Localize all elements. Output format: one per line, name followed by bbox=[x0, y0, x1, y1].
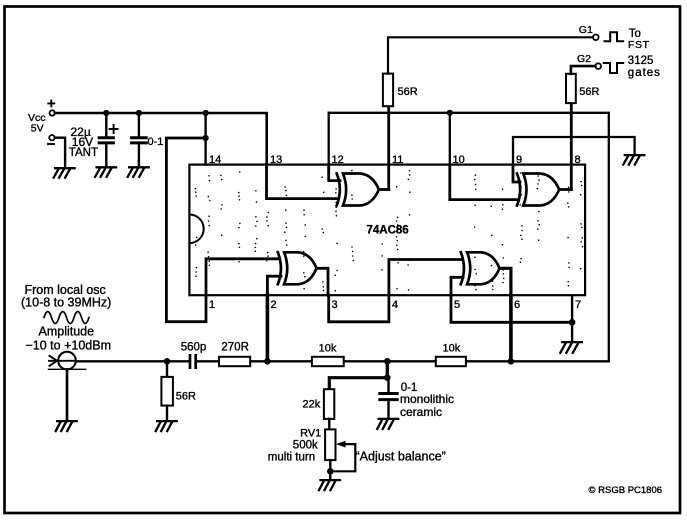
svg-text:12: 12 bbox=[332, 154, 344, 166]
node G1 terminal bbox=[593, 35, 599, 41]
junction dot (pin 6 on signal line) bbox=[508, 358, 515, 365]
junction dot (pin14 to rail) bbox=[203, 110, 209, 116]
XOR gate U1b internal input wire pin 4 bbox=[389, 260, 462, 296]
node Vcc + terminal bbox=[48, 100, 55, 115]
svg-text:ceramic: ceramic bbox=[400, 405, 442, 419]
ground (oscillator) bbox=[56, 421, 77, 431]
svg-text:3: 3 bbox=[332, 299, 338, 311]
wire feedback line (pin6 to pins 12,10) bbox=[329, 113, 609, 361]
wire pin 11 to resistor bbox=[387, 106, 390, 189]
svg-text:14: 14 bbox=[209, 154, 221, 166]
wire pin 1 loop around IC left bbox=[166, 138, 206, 322]
svg-text:22k: 22k bbox=[303, 399, 321, 411]
svg-text:13: 13 bbox=[270, 154, 282, 166]
junction dot (22u to rail) bbox=[103, 110, 109, 116]
capacitor C1 22u tantalum bbox=[99, 113, 117, 167]
junction dot (56R branch) bbox=[164, 358, 171, 365]
IC U1 74AC86 body bbox=[189, 165, 585, 296]
ground (RV1) bbox=[319, 480, 340, 490]
resistor R3 56R (input termination) bbox=[161, 377, 173, 406]
svg-text:56R: 56R bbox=[398, 86, 418, 98]
capacitor C4 0.1 monolithic bbox=[380, 378, 397, 419]
svg-text:−10 to +10dBm: −10 to +10dBm bbox=[26, 339, 111, 353]
XOR gate U1a (pins 1,2 out 3) bbox=[278, 252, 317, 284]
svg-text:7: 7 bbox=[575, 299, 581, 311]
svg-text:10k: 10k bbox=[443, 343, 461, 355]
svg-text:270R: 270R bbox=[221, 342, 249, 354]
svg-text:0-1: 0-1 bbox=[148, 136, 164, 148]
node minus terminal bbox=[48, 135, 55, 144]
resistor R4 270R bbox=[219, 357, 250, 366]
svg-text:4: 4 bbox=[392, 299, 398, 311]
XOR gate U1d internal input wire pin 9 bbox=[513, 165, 520, 182]
oscillator source bbox=[48, 352, 85, 370]
ground (C2) bbox=[128, 167, 149, 177]
wire R3 to ground bbox=[166, 406, 168, 421]
op XOR gate U1c internal input wire pin 13 bbox=[267, 165, 339, 199]
IC stipple texture bbox=[195, 170, 584, 292]
svg-text:8: 8 bbox=[575, 154, 581, 166]
resistor R1 56R (pin 11) bbox=[383, 74, 393, 107]
XOR gate U1d internal input wire pin 10 bbox=[450, 165, 519, 200]
wire pin 10 bbox=[449, 113, 451, 165]
svg-text:6: 6 bbox=[514, 299, 520, 311]
svg-text:10k: 10k bbox=[319, 343, 337, 355]
XOR U1c output wire to pin 11 bbox=[379, 188, 389, 191]
XOR gate U1d (pins 9,10 out 8) bbox=[517, 174, 559, 206]
junction dot (bias node lower) bbox=[384, 374, 391, 381]
ground (pin 9) bbox=[623, 155, 644, 165]
svg-text:G1: G1 bbox=[579, 24, 593, 36]
svg-text:multi turn: multi turn bbox=[268, 451, 315, 463]
junction dot (pin1 loop on pin14 wire) bbox=[203, 135, 209, 141]
potentiometer RV1 500k bbox=[325, 429, 335, 460]
junction dot (pin 2 on signal line) bbox=[264, 358, 271, 365]
wire oscillator to ground bbox=[66, 369, 69, 420]
wire R2 to G2 bbox=[571, 66, 596, 74]
svg-text:56R: 56R bbox=[176, 391, 196, 403]
junction dot (pin5/pin7) bbox=[569, 319, 576, 326]
svg-text:monolithic: monolithic bbox=[400, 392, 454, 406]
ground (C1) bbox=[95, 167, 116, 177]
svg-text:TANT: TANT bbox=[69, 147, 98, 159]
svg-text:10: 10 bbox=[453, 154, 465, 166]
wire pin 8 to resistor bbox=[570, 103, 573, 189]
wire pin 9 to ground bbox=[513, 137, 635, 165]
wire RV1 to ground bbox=[329, 460, 331, 480]
XOR U1d output wire to pin 8 bbox=[559, 188, 571, 191]
svg-text:(10-8 to 39MHz): (10-8 to 39MHz) bbox=[21, 296, 111, 310]
wire 22k to RV1 bbox=[328, 419, 330, 430]
wire bias node down bbox=[386, 361, 389, 377]
XOR gate U1a internal input wire pin 1 bbox=[206, 259, 280, 295]
svg-text:74AC86: 74AC86 bbox=[367, 225, 409, 237]
svg-text:11: 11 bbox=[392, 154, 403, 166]
svg-text:56R: 56R bbox=[579, 86, 599, 98]
ground (C4) bbox=[377, 419, 398, 429]
XOR U1a output wire to pin 3 bbox=[317, 268, 329, 295]
svg-text:5V: 5V bbox=[31, 122, 44, 134]
XOR gate U1b internal input wire pin 5 bbox=[451, 277, 463, 295]
ground (R3) bbox=[156, 421, 177, 431]
wire bias node to 22k bbox=[329, 378, 387, 390]
svg-text:G2: G2 bbox=[577, 53, 591, 65]
svg-text:2: 2 bbox=[271, 299, 277, 311]
XOR gate U1b (pins 4,5 out 6) bbox=[461, 252, 500, 284]
XOR gate U1a internal input wire pin 2 bbox=[267, 276, 281, 295]
resistor R7 22k bbox=[324, 389, 334, 419]
wire pin 5 to pin 7 ground bbox=[451, 295, 572, 322]
wire pin 14 to Vcc rail bbox=[204, 113, 206, 165]
svg-text:gates: gates bbox=[628, 67, 661, 79]
junction dot (pin 10 on feedback line) bbox=[447, 110, 453, 116]
resistor R2 56R (pin 8) bbox=[566, 74, 576, 103]
XOR gate U1c (pins 12,13 out 11) bbox=[337, 174, 379, 206]
svg-text:560p: 560p bbox=[181, 342, 207, 354]
resistor R5 10k bbox=[312, 357, 344, 366]
capacitor C2 0.1 bbox=[132, 113, 147, 167]
svg-text:3125: 3125 bbox=[628, 55, 654, 67]
wire Vcc rail bbox=[55, 113, 267, 165]
wire pin 6 to signal line bbox=[509, 295, 513, 361]
svg-text:“Adjust balance”: “Adjust balance” bbox=[356, 450, 446, 464]
junction dot (RV1 wiper to bottom) bbox=[327, 468, 334, 475]
svg-text:5: 5 bbox=[454, 299, 460, 311]
wire minus terminal to ground bbox=[55, 138, 65, 169]
waveform negative pulse bbox=[604, 63, 623, 73]
wire R1 to G1 bbox=[388, 37, 593, 73]
resistor R6 10k bbox=[436, 357, 466, 366]
RV1 wiper arrow bbox=[333, 444, 355, 471]
wire pin 3 to pin 4 loop bbox=[329, 295, 389, 322]
XOR U1b output wire to pin 6 bbox=[500, 268, 511, 295]
XOR gate U1c internal input wire pin 12 bbox=[329, 165, 340, 181]
svg-text:To: To bbox=[629, 28, 641, 40]
waveform sine symbol bbox=[44, 312, 89, 324]
svg-text:RV1: RV1 bbox=[300, 428, 321, 440]
junction dot (bias node on signal line) bbox=[384, 358, 391, 365]
node G2 terminal bbox=[595, 63, 601, 69]
svg-text:© RSGB PC1806: © RSGB PC1806 bbox=[589, 485, 663, 496]
wire 56R branch bbox=[166, 361, 168, 377]
junction dot (0.1 to rail) bbox=[136, 110, 142, 116]
waveform positive pulse bbox=[605, 32, 624, 41]
wire pin 12 to feedback line bbox=[328, 113, 330, 165]
svg-text:1: 1 bbox=[209, 299, 215, 311]
svg-text:Amplitude: Amplitude bbox=[39, 325, 95, 339]
wire signal line bbox=[76, 360, 609, 362]
wire pin 7 to ground bbox=[571, 295, 573, 342]
IC notch bbox=[189, 215, 203, 244]
svg-text:9: 9 bbox=[516, 154, 522, 166]
ground (minus terminal) bbox=[54, 168, 75, 178]
svg-text:FST: FST bbox=[628, 39, 650, 51]
svg-text:500k: 500k bbox=[293, 439, 318, 451]
wire pin 2 to signal line bbox=[266, 295, 270, 361]
capacitor C3 560p bbox=[190, 355, 196, 367]
ground (pin 7) bbox=[560, 342, 582, 353]
